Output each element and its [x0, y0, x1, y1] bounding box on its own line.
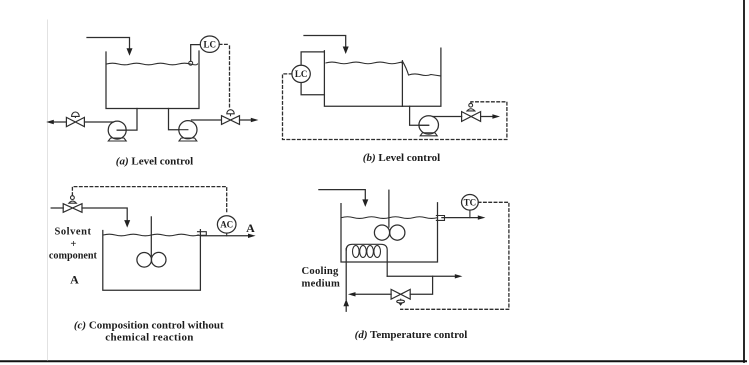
outlet nozzle c	[198, 232, 207, 236]
stirrer paddles d	[374, 225, 389, 240]
wire tank outlet left down	[117, 109, 137, 131]
signal LC1 to valve (dashed)	[219, 44, 229, 108]
svg-text:chemical reaction: chemical reaction	[105, 331, 194, 343]
wire feed-in c	[51, 207, 63, 209]
actuator dome V1	[72, 112, 80, 117]
arrow feed-in b	[343, 47, 349, 55]
pump P3	[419, 116, 439, 134]
wire tank b outlet	[410, 106, 429, 125]
control valve CV-c	[63, 204, 82, 213]
stirrer shaft c	[150, 217, 152, 256]
svg-text:(b) Level control: (b) Level control	[363, 152, 440, 164]
actuator dome CV-a	[227, 110, 234, 116]
tank T-d walls	[341, 203, 438, 262]
svg-text:+: +	[70, 239, 76, 250]
arrow out-left a	[46, 120, 54, 124]
cooling water inlet pipe	[345, 249, 347, 311]
svg-text:(d) Temperature control: (d) Temperature control	[355, 329, 468, 341]
liquid surface d	[342, 217, 438, 219]
stirrer shaft d	[388, 190, 390, 227]
wire outlet d	[442, 217, 478, 219]
tank T-c walls	[103, 230, 201, 291]
wire recycle to inlet	[355, 293, 391, 295]
stirrer paddles c	[137, 252, 152, 267]
faint page crease left	[47, 20, 49, 360]
cooling coil	[346, 244, 387, 276]
svg-text:TC: TC	[464, 198, 477, 208]
wire outlet c	[200, 235, 248, 237]
arrow outlet d	[478, 215, 486, 219]
svg-text:medium: medium	[302, 278, 341, 289]
signal AC to valve (dashed)	[72, 187, 226, 214]
actuator CV-d below	[400, 299, 402, 300]
svg-text:component: component	[49, 250, 98, 261]
wire tank outlet right down	[169, 109, 179, 130]
wire pump P1 to valve	[85, 121, 114, 123]
arrow feed-in a	[127, 48, 133, 56]
svg-text:(c) Composition control withou: (c) Composition control without	[74, 319, 224, 331]
weir b	[401, 61, 403, 107]
svg-text:LC: LC	[204, 39, 217, 49]
wire pump P2 to control valve	[192, 119, 222, 121]
wire sensor to LC	[191, 45, 201, 62]
arrow recycle left	[348, 292, 356, 296]
pump P2	[179, 121, 197, 139]
actuator CV-c	[69, 201, 77, 203]
tank T-a walls	[106, 51, 199, 109]
controller LC1	[200, 36, 219, 52]
page border right edge	[743, 0, 745, 362]
control valve CV-d	[391, 289, 410, 299]
wire feed-in b	[304, 36, 346, 47]
svg-text:Solvent: Solvent	[54, 226, 91, 237]
valve V1	[66, 117, 84, 126]
arrow out b	[492, 114, 500, 118]
arrow feed-in d	[362, 199, 368, 207]
wire feed-in a	[87, 38, 130, 49]
pump P1	[108, 121, 126, 139]
controller AC	[217, 216, 236, 233]
svg-text:(a) Level control: (a) Level control	[116, 156, 193, 168]
svg-text:Cooling: Cooling	[302, 266, 340, 277]
level sensor nozzle a	[189, 61, 193, 65]
wire valve c to tank	[82, 208, 127, 221]
wire feed-in d	[319, 190, 365, 200]
control valve CV-a	[222, 116, 240, 125]
arrow coolant out	[455, 274, 463, 278]
liquid surface b downstream	[403, 62, 441, 76]
level chamber b	[301, 52, 324, 95]
liquid surface b upstream	[326, 62, 403, 64]
actuator CV-b	[467, 109, 475, 111]
controller LC2	[292, 65, 310, 82]
arrow out-right a	[251, 118, 259, 122]
wire valve V1 out	[54, 121, 67, 123]
svg-text:A: A	[246, 221, 255, 235]
page border bottom edge	[0, 360, 746, 362]
svg-text:AC: AC	[220, 220, 233, 230]
wire coolant outlet header	[387, 275, 455, 277]
wire control valve out	[240, 119, 252, 121]
arrow into tank c	[124, 220, 130, 228]
svg-text:A: A	[70, 272, 79, 286]
controller TC	[462, 195, 479, 211]
wire recycle branch down	[410, 276, 432, 294]
wire control valve b out	[481, 116, 493, 118]
signal TC to valve (dashed)	[401, 202, 509, 309]
signal LC2 to valve (dashed)	[283, 74, 507, 140]
control valve CV-b	[462, 112, 481, 122]
wire pump P3 to control valve	[433, 116, 462, 118]
liquid surface c	[103, 234, 198, 236]
arrow coolant up	[343, 299, 349, 306]
outlet nozzle d	[436, 216, 444, 221]
tank T-b walls	[324, 48, 441, 106]
svg-text:LC: LC	[295, 69, 308, 79]
arrow outlet c	[248, 234, 256, 238]
liquid surface a	[107, 63, 198, 65]
